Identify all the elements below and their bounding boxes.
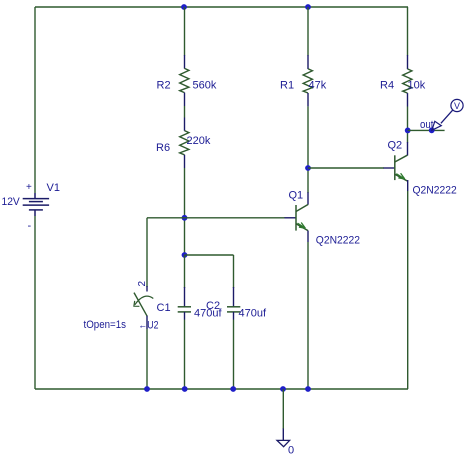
battery V1 plates and pins <box>23 193 49 216</box>
node junction top right <box>305 4 311 10</box>
transistor Q2 emitter arrow <box>396 173 405 179</box>
svg-text:2: 2 <box>137 281 148 287</box>
svg-text:-: - <box>28 220 32 232</box>
svg-text:R1: R1 <box>280 80 294 92</box>
resistor R1 pin top <box>307 55 309 69</box>
wire top rail <box>35 6 408 8</box>
svg-text:←U2: ←U2 <box>139 320 159 332</box>
capacitor C2 pin bottom <box>233 312 235 320</box>
resistor R1 <box>303 69 312 93</box>
resistor R2 pin bottom <box>184 93 186 106</box>
capacitor C1 <box>178 307 191 312</box>
voltage probe arrowhead <box>432 121 441 130</box>
wire R2 to R6 <box>184 106 186 118</box>
ground symbol 0 <box>277 440 290 446</box>
voltage probe marker line <box>441 110 453 123</box>
wire C1 bottom <box>184 320 186 390</box>
wire battery bottom to rail <box>34 216 36 389</box>
svg-text:C1: C1 <box>157 302 171 314</box>
capacitor C2 pin top <box>233 287 235 307</box>
transistor Q1 <box>296 205 308 231</box>
node junction top center <box>181 4 187 10</box>
switch U2 motion arc <box>135 296 154 305</box>
node junction bottom C2 <box>230 386 236 392</box>
resistor R1 pin bottom <box>307 93 309 106</box>
switch U2 terminal 2 pin <box>146 286 148 292</box>
svg-text:R4: R4 <box>380 80 394 92</box>
ground pin <box>282 429 284 441</box>
capacitor C1 pin top <box>184 287 186 307</box>
wire R4 column top <box>407 7 409 56</box>
switch U2 blade <box>134 293 147 317</box>
wire left rail <box>34 7 36 193</box>
wire C1 top <box>184 255 186 288</box>
node junction Q2 base <box>305 165 311 171</box>
wire switch to bottom rail <box>146 329 148 389</box>
resistor R4 <box>403 69 412 93</box>
resistor R6 pin bottom <box>184 155 186 168</box>
node junction probe tap <box>429 127 435 133</box>
svg-text:out: out <box>420 119 434 131</box>
svg-text:12V: 12V <box>2 196 21 208</box>
node junction base wire <box>182 215 188 221</box>
wire R6 to base node <box>184 168 186 255</box>
svg-text:Q2: Q2 <box>388 140 403 152</box>
wire R4 to out node <box>407 107 409 143</box>
svg-text:470uf: 470uf <box>239 308 267 320</box>
transistor Q2 <box>395 155 408 181</box>
resistor R2 pin top <box>184 55 186 69</box>
svg-text:R6: R6 <box>156 142 170 154</box>
resistor R4 pin bottom <box>407 93 409 106</box>
transistor Q2 collector pin <box>407 142 409 156</box>
wire center column top <box>184 7 186 56</box>
capacitor C1 pin bottom <box>184 312 186 320</box>
svg-text:V1: V1 <box>47 182 60 194</box>
wire ground stub <box>282 389 284 429</box>
svg-text:560k: 560k <box>193 80 217 92</box>
transistor Q2 base pin <box>384 167 395 169</box>
svg-text:Q2N2222: Q2N2222 <box>316 234 360 246</box>
resistor R6 pin top <box>184 118 186 131</box>
wire R1 to Q2 base node <box>307 106 309 193</box>
wire Q1 emitter down <box>307 242 309 389</box>
wire R1 column top <box>307 7 309 56</box>
transistor Q1 emitter pin <box>307 231 309 242</box>
wire Q2 emitter down right rail <box>407 191 409 389</box>
wire Q2 base horizontal <box>308 167 384 169</box>
transistor Q2 emitter pin <box>407 180 409 191</box>
wire C2 branch vertical <box>233 255 235 288</box>
svg-text:C2: C2 <box>206 300 220 312</box>
wire C2 bottom <box>233 320 235 390</box>
node junction C branch <box>182 252 188 258</box>
node junction bottom Q1 emitter <box>305 386 311 392</box>
wire switch column <box>146 218 148 287</box>
svg-text:Q2N2222: Q2N2222 <box>413 185 457 197</box>
transistor Q1 collector pin <box>307 192 309 204</box>
resistor R2 <box>180 68 189 92</box>
svg-text:0: 0 <box>288 445 294 457</box>
switch U2 arc arrowhead <box>134 301 140 306</box>
svg-text:Q1: Q1 <box>289 190 304 202</box>
node junction bottom switch <box>144 386 150 392</box>
svg-text:R2: R2 <box>157 80 171 92</box>
svg-text:V: V <box>454 101 460 111</box>
svg-text:10k: 10k <box>408 80 426 92</box>
node junction bottom C1 <box>182 386 188 392</box>
wire out stub <box>408 129 445 131</box>
voltage probe circle V <box>451 99 463 111</box>
wire Q1 base horizontal <box>147 217 285 219</box>
switch U2 terminal 1 pin <box>146 316 148 329</box>
transistor Q1 base pin <box>285 217 296 219</box>
wire bottom rail <box>35 388 408 390</box>
svg-text:220k: 220k <box>187 135 211 147</box>
resistor R4 pin top <box>407 55 409 69</box>
resistor R6 <box>180 131 189 155</box>
wire C2 branch horizontal <box>185 254 234 256</box>
capacitor C2 <box>227 307 240 312</box>
transistor Q1 emitter arrow <box>298 223 306 229</box>
node junction bottom ground <box>280 386 286 392</box>
node junction out <box>405 127 411 133</box>
svg-text:tOpen=1s: tOpen=1s <box>84 319 127 331</box>
svg-text:+: + <box>26 182 32 193</box>
svg-text:47k: 47k <box>309 80 327 92</box>
